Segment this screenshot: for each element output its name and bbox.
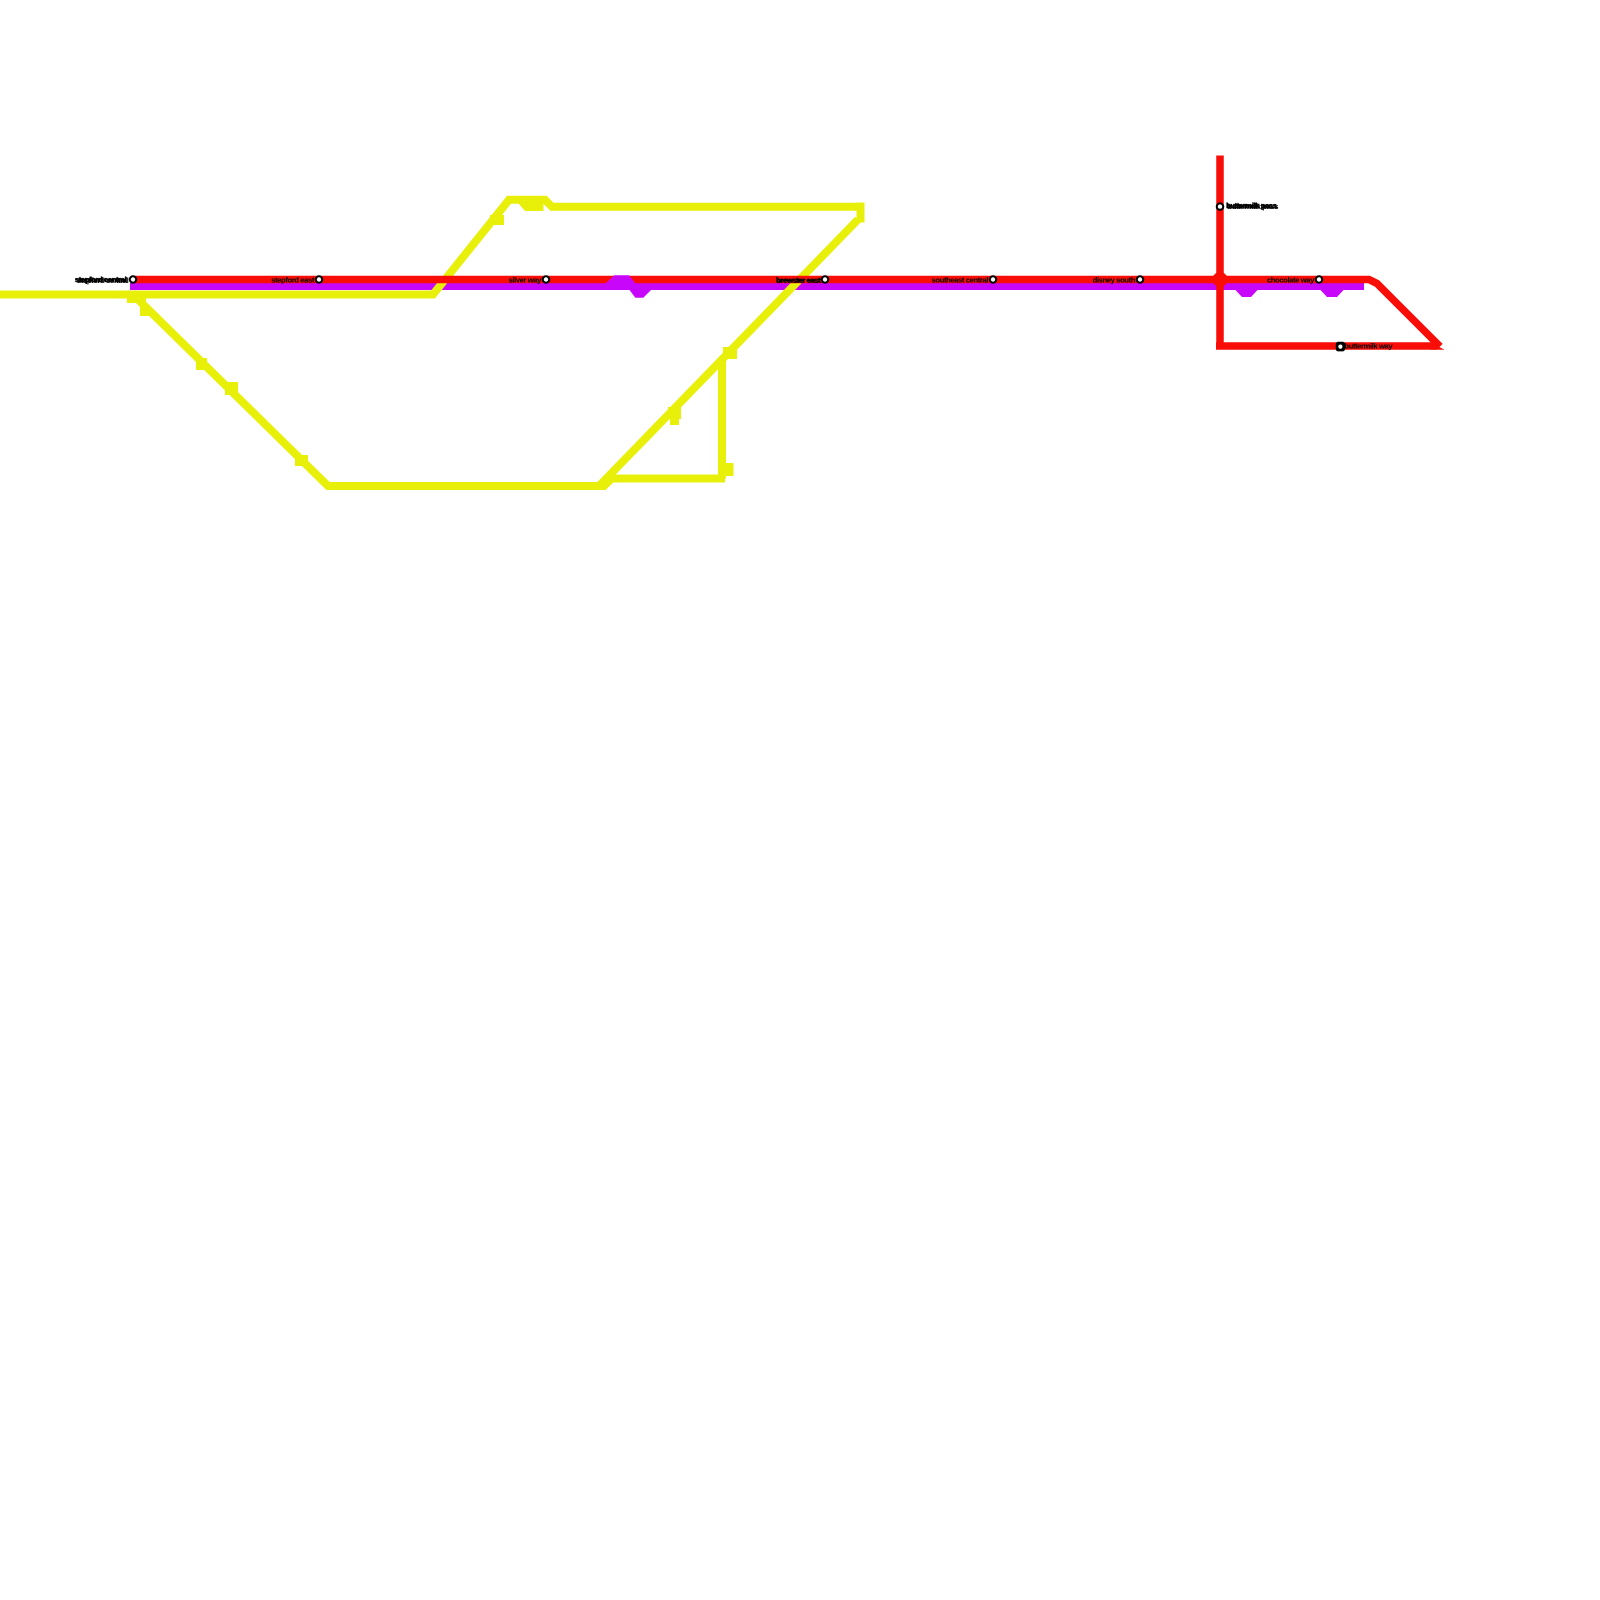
yellow vertex blob e bbox=[490, 215, 504, 225]
yellow big diagonal bbox=[600, 220, 859, 486]
svg-text:stepford central: stepford central bbox=[75, 275, 127, 284]
yellow vertex blob g bbox=[670, 416, 679, 425]
magenta dip near chocolate way east bbox=[1322, 287, 1342, 294]
red bottom bar bbox=[1216, 342, 1437, 350]
station stepford central bbox=[75, 275, 137, 285]
svg-text:silver way: silver way bbox=[508, 276, 542, 285]
svg-text:disney south: disney south bbox=[1093, 276, 1136, 285]
station southeast central bbox=[931, 275, 997, 284]
svg-text:chocolate way: chocolate way bbox=[1267, 276, 1315, 285]
station silver way bbox=[508, 275, 550, 284]
station disney south bbox=[1093, 275, 1145, 284]
svg-text:brewster east: brewster east bbox=[777, 276, 822, 285]
yellow vertex blob a bbox=[140, 305, 150, 316]
red pointed tip bbox=[1431, 342, 1445, 350]
yellow top-right corner square bbox=[857, 203, 865, 223]
yellow vertex blob b bbox=[196, 358, 207, 370]
svg-text:buttermilk way: buttermilk way bbox=[1344, 342, 1393, 351]
yellow bar lead-in under plateau bbox=[519, 204, 544, 212]
station brewster east bbox=[776, 275, 829, 285]
yellow vertex blob d bbox=[295, 455, 308, 466]
magenta dip near chocolate way west bbox=[1237, 287, 1256, 294]
yellow vertex blob f bbox=[668, 407, 681, 419]
station buttermilk pass bbox=[1216, 201, 1279, 211]
yellow lower-left diagonal and bottom bar bbox=[133, 295, 725, 487]
station buttermilk way bbox=[1336, 342, 1394, 352]
magenta bump overlay at silver way east bbox=[608, 280, 648, 294]
red vertical buttermilk branch bbox=[1216, 156, 1224, 347]
red line main with right loop bbox=[133, 280, 1440, 347]
svg-text:stepford east: stepford east bbox=[271, 276, 315, 285]
station chocolate way bbox=[1267, 275, 1323, 284]
yellow stub foot blob bbox=[724, 463, 734, 476]
svg-text:buttermilk pass: buttermilk pass bbox=[1226, 201, 1277, 210]
yellow line: underline + upper branch and top bar bbox=[0, 200, 858, 295]
yellow branch triangle vertical bbox=[718, 360, 726, 479]
station stepford east bbox=[271, 275, 323, 284]
yellow vertex blob c bbox=[225, 382, 238, 395]
yellow join blob at loop west bbox=[127, 293, 146, 303]
magenta line main bbox=[130, 283, 1364, 290]
svg-text:southeast central: southeast central bbox=[931, 276, 988, 285]
yellow vertex blob h bbox=[723, 347, 737, 359]
red junction diamond bbox=[1210, 269, 1231, 290]
